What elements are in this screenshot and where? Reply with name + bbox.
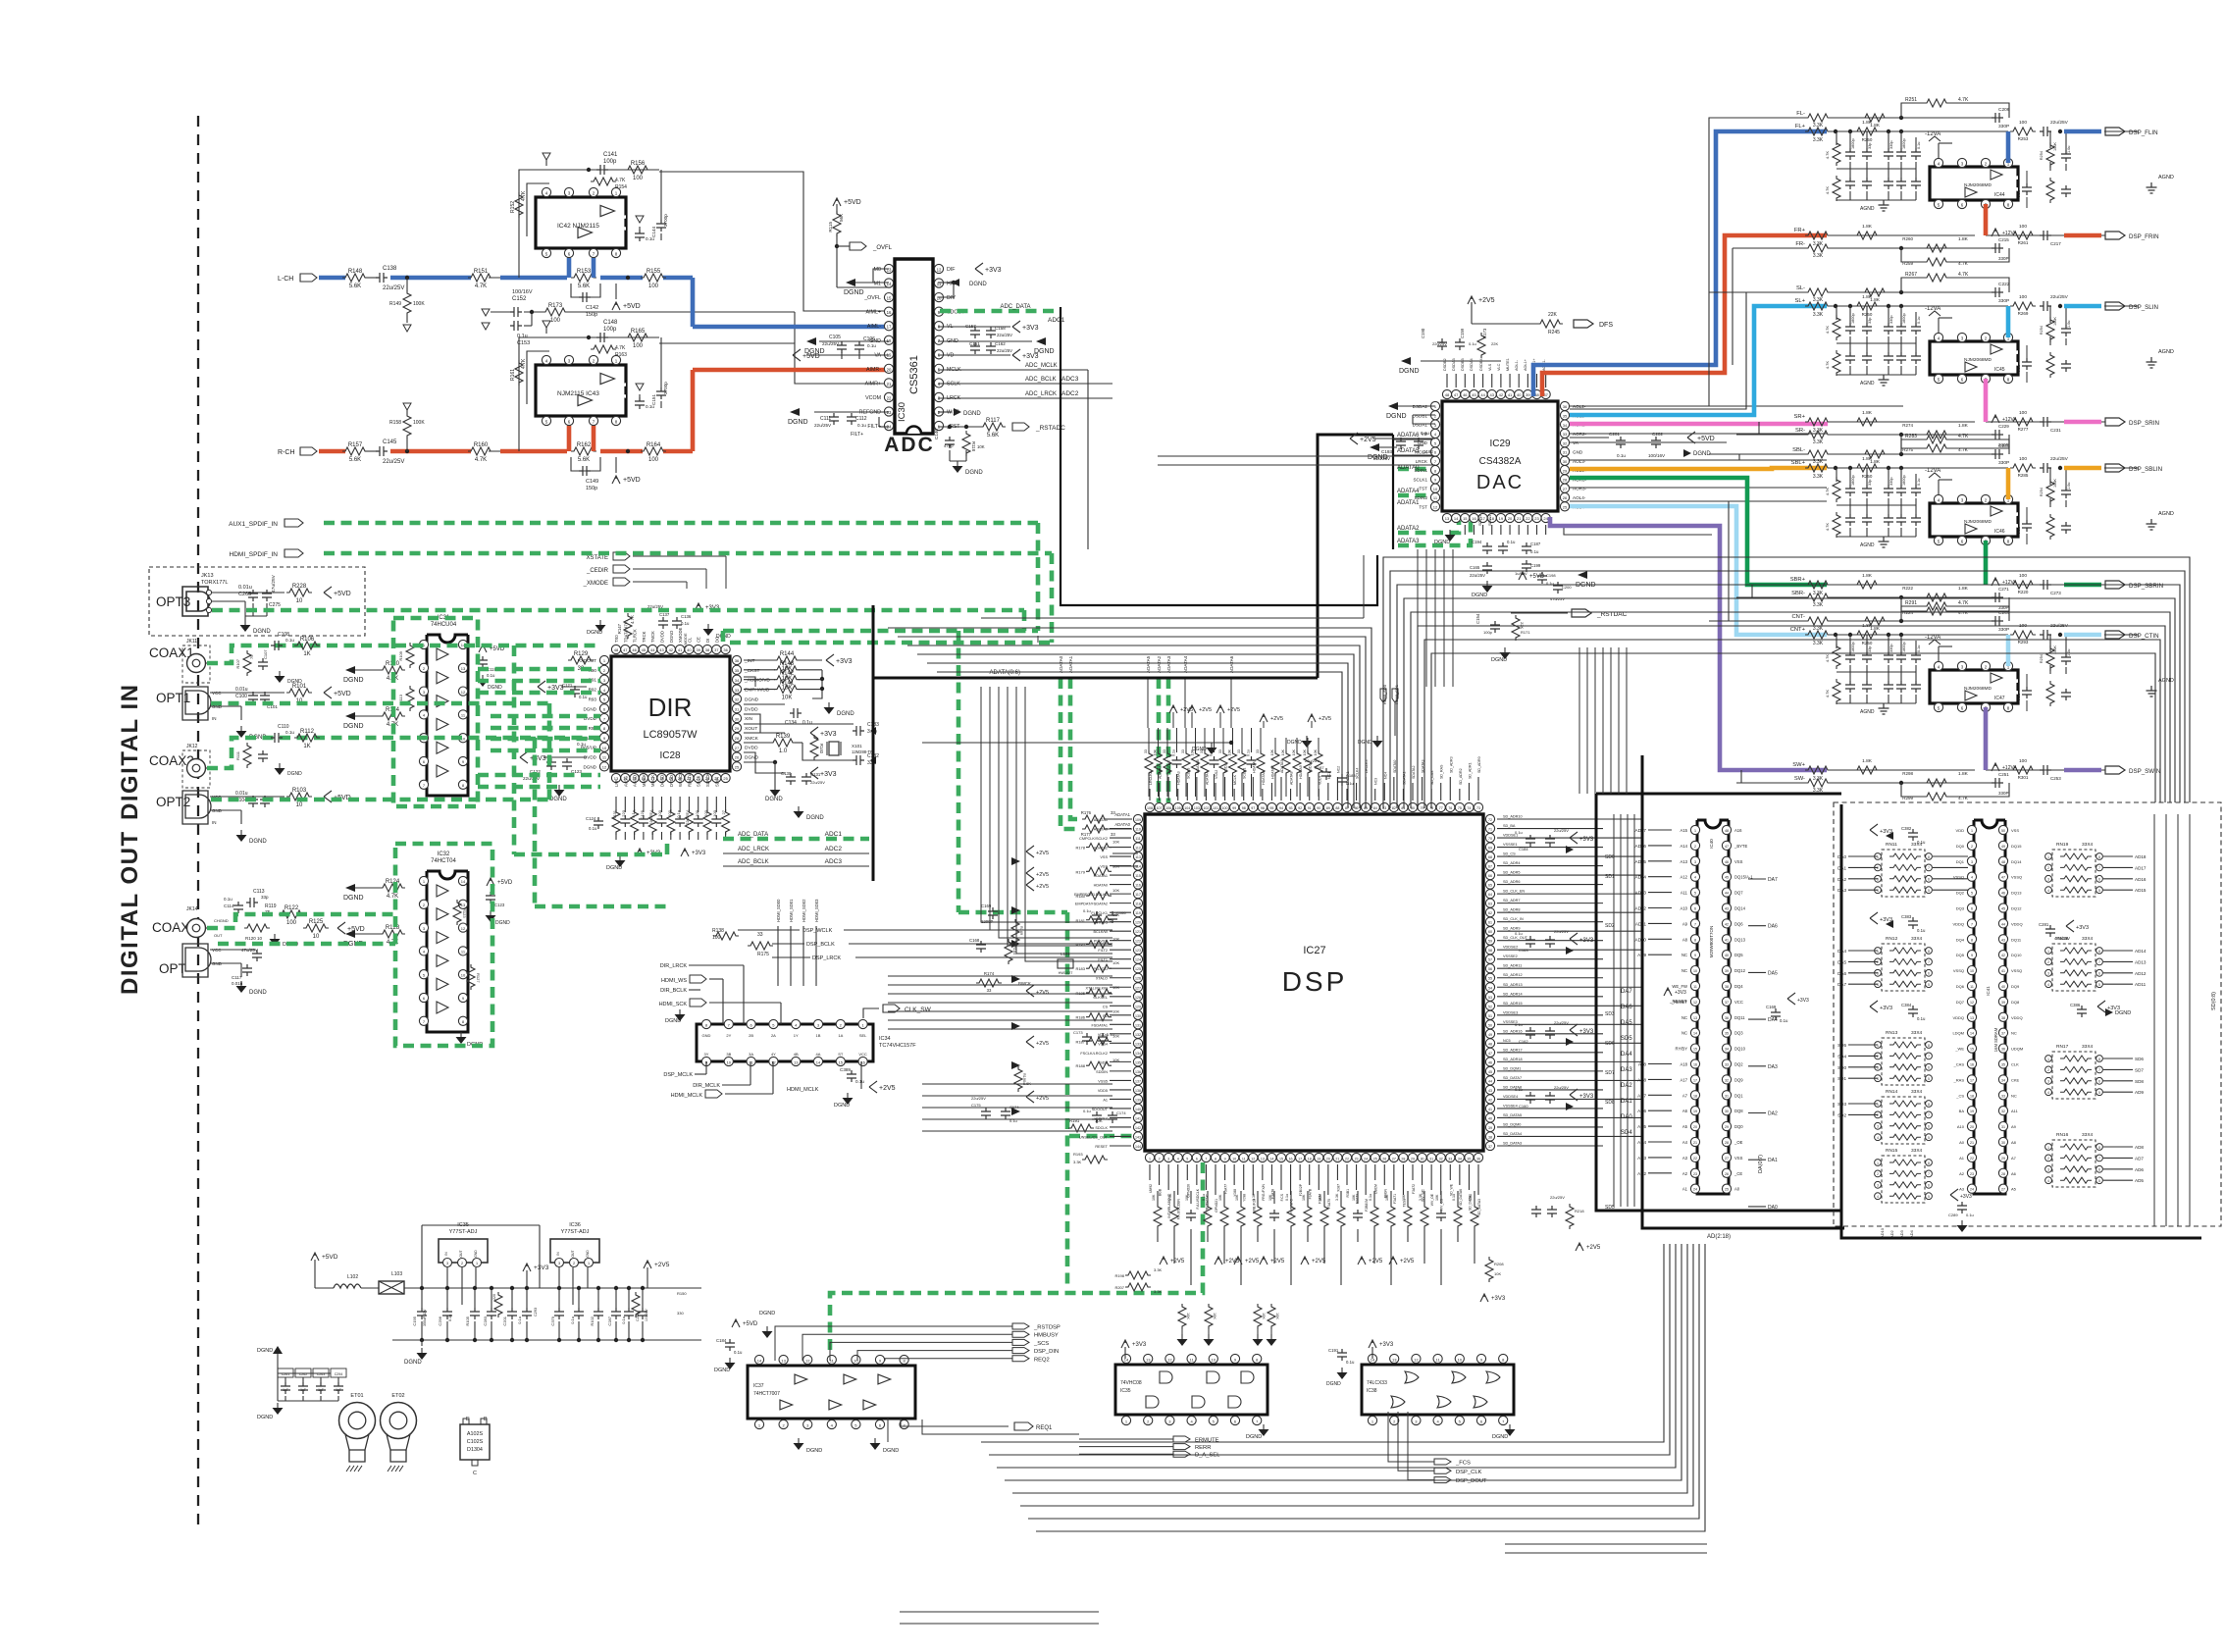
svg-text:33: 33: [1256, 749, 1260, 753]
svg-text:100/16V: 100/16V: [512, 289, 533, 295]
svg-text:43: 43: [1725, 907, 1729, 911]
svg-text:FILT+: FILT+: [851, 432, 863, 438]
svg-text:0.1u: 0.1u: [570, 1316, 575, 1324]
svg-text:33p: 33p: [1868, 646, 1872, 652]
svg-text:10: 10: [1693, 969, 1697, 973]
svg-text:JK12: JK12: [186, 744, 198, 749]
svg-text:0.1u: 0.1u: [1083, 908, 1091, 913]
svg-text:ADATA8: ADATA8: [1290, 772, 1294, 785]
svg-text:10K: 10K: [1494, 1271, 1501, 1276]
svg-text:+3V3: +3V3: [1491, 1296, 1506, 1302]
svg-text:137: 137: [1135, 1079, 1141, 1083]
svg-text:4.7K: 4.7K: [1958, 434, 1969, 439]
svg-text:22: 22: [1345, 1157, 1349, 1161]
svg-text:DA6: DA6: [1621, 1005, 1632, 1010]
svg-text:0.1u: 0.1u: [631, 810, 636, 818]
svg-text:138: 138: [1135, 1089, 1141, 1093]
svg-text:100: 100: [633, 343, 644, 349]
svg-text:33: 33: [1144, 749, 1148, 753]
svg-text:VSS5: VSS5: [1098, 1079, 1108, 1083]
svg-text:DSP: DSP: [1282, 966, 1348, 997]
svg-text:1: 1: [1877, 1162, 1879, 1165]
svg-text:3.3K: 3.3K: [1252, 1193, 1256, 1201]
svg-text:VSSSE2: VSSSE2: [1503, 955, 1518, 958]
svg-text:0.1u: 0.1u: [676, 810, 681, 818]
svg-text:135: 135: [1135, 1060, 1141, 1064]
svg-text:1: 1: [2047, 950, 2049, 954]
svg-text:46: 46: [632, 647, 637, 652]
svg-text:VSSSE4: VSSSE4: [1503, 1104, 1518, 1108]
svg-text:SD_ADR10: SD_ADR10: [1503, 815, 1523, 819]
svg-text:6: 6: [2098, 972, 2100, 976]
svg-text:47u/25V: 47u/25V: [271, 574, 277, 593]
svg-text:46: 46: [1463, 392, 1468, 397]
svg-text:R115: R115: [828, 222, 833, 232]
svg-text:R283: R283: [1905, 434, 1917, 439]
svg-text:16: 16: [887, 310, 892, 315]
svg-text:VSSQ: VSSQ: [1953, 968, 1964, 973]
svg-text:COAX: COAX: [152, 920, 189, 935]
svg-text:R183: R183: [1075, 966, 1085, 971]
svg-text:3.3K: 3.3K: [1335, 1193, 1339, 1201]
svg-text:DSP_FLIN: DSP_FLIN: [2129, 129, 2158, 136]
svg-text:SD0: SD0: [1605, 854, 1615, 860]
svg-text:5: 5: [1971, 892, 1973, 896]
svg-text:10: 10: [296, 802, 303, 808]
svg-text:40: 40: [2001, 985, 2005, 989]
svg-text:AGND: AGND: [2158, 175, 2174, 181]
svg-text:10K: 10K: [1228, 749, 1232, 755]
svg-text:DGND: DGND: [583, 706, 596, 711]
svg-text:33: 33: [1237, 749, 1241, 753]
svg-text:SR+: SR+: [1794, 414, 1806, 420]
svg-text:C202: C202: [1652, 432, 1663, 437]
svg-text:DIR_LRCK: DIR_LRCK: [660, 963, 688, 969]
svg-text:ADATA4: ADATA4: [1183, 655, 1188, 673]
svg-text:VCOM: VCOM: [865, 395, 881, 401]
svg-text:VSS: VSS: [1734, 1156, 1743, 1161]
svg-text:ADATA4: ADATA4: [1205, 772, 1209, 785]
svg-text:13: 13: [461, 903, 466, 907]
svg-text:26: 26: [1725, 1172, 1729, 1176]
svg-text:F3A71: F3A71: [1393, 1194, 1397, 1204]
svg-text:VDD: VDD: [1956, 828, 1965, 833]
svg-text:RN14: RN14: [1886, 1089, 1898, 1095]
svg-text:7: 7: [1928, 866, 1930, 870]
svg-text:100: 100: [667, 809, 672, 816]
svg-text:VDDQ: VDDQ: [1952, 1015, 1964, 1020]
svg-text:112: 112: [1135, 847, 1141, 851]
svg-text:39: 39: [696, 647, 700, 652]
svg-text:SD_ADR15: SD_ADR15: [1503, 1002, 1523, 1006]
svg-text:LC89057W: LC89057W: [643, 729, 698, 741]
svg-text:3.3K: 3.3K: [1154, 1267, 1163, 1272]
svg-text:DGND: DGND: [745, 697, 759, 702]
svg-text:C231: C231: [2050, 428, 2061, 433]
svg-text:10K: 10K: [1152, 1194, 1156, 1201]
svg-text:0.1u: 0.1u: [1107, 1032, 1114, 1037]
svg-text:48: 48: [614, 647, 619, 652]
svg-text:3: 3: [1971, 860, 1973, 864]
svg-text:SD_DATA3: SD_DATA3: [1503, 1142, 1522, 1146]
svg-text:0.1u: 0.1u: [285, 730, 294, 735]
svg-text:_CEDIR: _CEDIR: [586, 568, 609, 574]
svg-text:10K: 10K: [782, 696, 793, 701]
svg-text:8: 8: [1971, 938, 1973, 942]
svg-text:+3V3: +3V3: [820, 731, 837, 738]
svg-text:C386: C386: [2070, 1003, 2081, 1007]
svg-text:COAX1: COAX1: [149, 645, 194, 660]
svg-text:2: 2: [2047, 960, 2049, 964]
svg-text:IN: IN: [212, 820, 217, 825]
svg-text:31: 31: [1563, 450, 1568, 455]
svg-text:DQ2: DQ2: [1956, 891, 1965, 896]
svg-text:AD17: AD17: [2135, 865, 2147, 870]
svg-text:0.1u: 0.1u: [1515, 830, 1523, 835]
svg-text:100K: 100K: [2053, 142, 2057, 151]
svg-text:C379: C379: [550, 1316, 555, 1325]
svg-text:C142: C142: [586, 305, 598, 311]
svg-text:C389: C389: [840, 1067, 851, 1072]
svg-text:36: 36: [1725, 1016, 1729, 1020]
svg-text:47: 47: [1725, 845, 1729, 849]
svg-text:WE_FW: WE_FW: [1672, 984, 1687, 989]
svg-text:10: 10: [257, 936, 263, 941]
svg-text:C275: C275: [269, 602, 281, 608]
svg-text:22u/25V: 22u/25V: [383, 285, 404, 291]
svg-text:+3V3: +3V3: [1132, 1342, 1147, 1348]
svg-text:DA0: DA0: [1621, 1114, 1632, 1120]
svg-text:DSDB3: DSDB3: [1461, 358, 1465, 371]
svg-text:SD3: SD3: [1605, 1011, 1615, 1017]
svg-text:C201: C201: [502, 1316, 507, 1325]
svg-text:10: 10: [937, 296, 942, 301]
svg-text:+2V5: +2V5: [1036, 1041, 1049, 1047]
svg-text:37: 37: [1488, 1145, 1492, 1149]
svg-text:SD8: SD8: [2135, 1079, 2144, 1084]
svg-text:DQ1: DQ1: [1956, 859, 1965, 864]
svg-text:330P: 330P: [1998, 460, 2009, 466]
svg-text:AD3: AD3: [1899, 1229, 1904, 1238]
svg-text:45: 45: [1472, 392, 1476, 397]
svg-text:A5: A5: [2011, 1187, 2017, 1192]
svg-text:12: 12: [461, 690, 466, 695]
svg-text:80: 80: [1411, 806, 1415, 810]
svg-text:HDATA6: HDATA6: [1196, 759, 1200, 773]
svg-text:DSDB2: DSDB2: [1443, 358, 1447, 371]
svg-text:R301: R301: [2018, 775, 2029, 780]
svg-text:40: 40: [1517, 392, 1522, 397]
svg-text:C265: C265: [238, 592, 251, 597]
svg-text:1uF: 1uF: [283, 1388, 288, 1392]
svg-text:14: 14: [461, 879, 466, 884]
svg-text:0.1u: 0.1u: [1515, 1022, 1523, 1027]
svg-text:15: 15: [1463, 516, 1468, 521]
svg-text:14: 14: [1970, 1032, 1974, 1036]
svg-text:A10: A10: [1957, 1124, 1965, 1129]
svg-text:R254: R254: [2040, 488, 2044, 496]
svg-text:SCLK4: SCLK4: [1356, 768, 1360, 779]
svg-text:AIMR-: AIMR-: [866, 367, 881, 373]
svg-text:2: 2: [573, 1262, 575, 1265]
svg-text:11: 11: [1693, 985, 1697, 989]
svg-text:1.0u: 1.0u: [2067, 483, 2071, 490]
svg-text:15: 15: [1279, 1157, 1283, 1161]
svg-text:C253: C253: [2050, 776, 2061, 781]
svg-text:0.01u: 0.01u: [232, 981, 243, 986]
svg-text:+5VD: +5VD: [347, 926, 365, 933]
svg-text:AVSS: AVSS: [623, 776, 628, 787]
svg-text:33p: 33p: [1868, 318, 1872, 324]
svg-text:XOUT: XOUT: [745, 726, 757, 732]
svg-text:1800p: 1800p: [1902, 475, 1906, 486]
svg-text:14: 14: [816, 1059, 821, 1064]
svg-text:+2V5: +2V5: [1036, 884, 1049, 890]
svg-text:15: 15: [887, 296, 892, 301]
svg-text:R107: R107: [235, 658, 240, 668]
svg-text:IN: IN: [212, 716, 217, 721]
svg-text:31: 31: [1725, 1094, 1729, 1098]
svg-text:10K: 10K: [1213, 1313, 1216, 1319]
svg-text:DGND: DGND: [343, 723, 364, 730]
svg-text:+3V3: +3V3: [1579, 1094, 1594, 1100]
svg-text:MMCK: MMCK: [642, 774, 647, 787]
svg-text:39: 39: [1488, 1126, 1492, 1130]
svg-text:TST: TST: [1419, 487, 1427, 491]
svg-text:XSTATE: XSTATE: [587, 555, 608, 561]
svg-text:4: 4: [2047, 1179, 2049, 1183]
svg-text:DGND: DGND: [587, 630, 602, 636]
svg-text:A11: A11: [2011, 1109, 2019, 1113]
svg-text:50: 50: [2001, 829, 2005, 833]
svg-text:R93: R93: [589, 697, 597, 701]
svg-text:R162: R162: [577, 442, 592, 448]
svg-text:C137: C137: [659, 612, 670, 617]
svg-text:IC44: IC44: [1994, 192, 2005, 198]
svg-text:13: 13: [1261, 1157, 1265, 1161]
svg-text:0.1u: 0.1u: [1917, 645, 1921, 652]
svg-text:13: 13: [1693, 1016, 1697, 1020]
svg-text:SR-: SR-: [1795, 428, 1805, 434]
svg-text:4.7K: 4.7K: [1825, 186, 1830, 195]
svg-text:VSSSE1: VSSSE1: [1503, 843, 1518, 847]
svg-text:SD1: SD1: [1837, 1076, 1846, 1081]
svg-text:DGND: DGND: [404, 1360, 422, 1366]
svg-text:JK14: JK14: [186, 906, 198, 912]
svg-text:A3: A3: [1959, 1187, 1965, 1192]
svg-text:A5: A5: [1682, 1124, 1688, 1129]
svg-text:FSDATA1: FSDATA1: [1091, 1023, 1108, 1027]
svg-text:DGND: DGND: [1368, 454, 1388, 461]
svg-text:AD8: AD8: [2135, 1145, 2144, 1150]
svg-text:330: 330: [677, 1311, 684, 1316]
svg-text:LRCLKB: LRCLKB: [1149, 770, 1153, 785]
svg-text:FWTINFG: FWTINFG: [1290, 1199, 1294, 1214]
svg-text:R129: R129: [574, 651, 589, 657]
svg-text:140: 140: [1135, 1108, 1141, 1111]
svg-text:74HCT7007: 74HCT7007: [753, 1391, 780, 1397]
svg-text:AD11: AD11: [2135, 982, 2147, 987]
svg-text:4.7K: 4.7K: [630, 615, 635, 624]
svg-text:32: 32: [735, 697, 740, 702]
svg-text:33: 33: [1111, 832, 1115, 837]
svg-text:A15: A15: [1681, 828, 1688, 833]
svg-text:330p: 330p: [1889, 316, 1893, 324]
svg-text:7: 7: [2098, 866, 2100, 870]
svg-text:SD_ADR13: SD_ADR13: [1503, 983, 1523, 987]
svg-text:A2: A2: [1959, 1171, 1965, 1176]
svg-text:1800p: 1800p: [1851, 475, 1855, 486]
svg-text:33X4: 33X4: [2082, 936, 2094, 942]
svg-text:SD0: SD0: [1837, 1065, 1846, 1070]
svg-text:C198: C198: [1546, 573, 1556, 578]
svg-text:C149: C149: [586, 479, 598, 485]
svg-text:0.1u: 0.1u: [1917, 142, 1921, 149]
svg-text:134: 134: [1135, 1052, 1141, 1056]
svg-text:SD6: SD6: [2135, 1057, 2144, 1061]
svg-text:12: 12: [1970, 1001, 1974, 1005]
svg-text:C151: C151: [969, 341, 980, 346]
svg-text:33X4: 33X4: [1911, 842, 1923, 848]
svg-text:43: 43: [1488, 1089, 1492, 1093]
svg-text:6: 6: [1928, 1125, 1930, 1129]
svg-text:X087: X087: [1336, 1184, 1340, 1192]
svg-text:1800p: 1800p: [1902, 138, 1906, 149]
svg-text:+2V5: +2V5: [1170, 1259, 1185, 1265]
svg-text:121: 121: [1135, 930, 1141, 934]
svg-text:SDIN: SDIN: [714, 777, 719, 787]
svg-text:10K: 10K: [1218, 1194, 1222, 1201]
svg-text:41: 41: [1725, 938, 1729, 942]
svg-text:DA0: DA0: [1837, 854, 1846, 859]
svg-text:AD13: AD13: [2135, 959, 2147, 964]
svg-text:WLRCK: WLRCK: [678, 772, 683, 787]
svg-text:21: 21: [1693, 1141, 1697, 1145]
svg-text:DA4: DA4: [1621, 1052, 1632, 1058]
svg-text:DQ11: DQ11: [1734, 1015, 1745, 1020]
svg-text:6: 6: [1196, 1157, 1198, 1161]
svg-text:DSDB4: DSDB4: [1479, 358, 1483, 371]
svg-text:+3V3: +3V3: [1579, 938, 1594, 944]
svg-text:DIGITAL IN: DIGITAL IN: [117, 684, 143, 820]
svg-text:_OVFL: _OVFL: [863, 295, 881, 301]
svg-text:TST: TST: [1419, 504, 1427, 509]
svg-text:17: 17: [1693, 1078, 1697, 1082]
svg-text:46: 46: [2001, 892, 2005, 896]
svg-text:14: 14: [1454, 516, 1459, 521]
svg-text:8: 8: [2098, 855, 2100, 859]
svg-text:3.3K: 3.3K: [1073, 1160, 1082, 1164]
svg-text:26: 26: [1382, 1157, 1386, 1161]
svg-text:XTALI/CLKIN: XTALI/CLKIN: [1085, 986, 1108, 990]
svg-text:SD_RAS: SD_RAS: [1440, 764, 1444, 779]
svg-text:MBCK: MBCK: [650, 775, 655, 787]
svg-text:2: 2: [1971, 845, 1973, 849]
svg-text:3.3K: 3.3K: [1813, 253, 1824, 259]
svg-text:DGND: DGND: [1472, 593, 1487, 598]
svg-text:C184: C184: [1519, 847, 1528, 852]
svg-text:143: 143: [1135, 1135, 1141, 1139]
svg-text:74LCX33: 74LCX33: [1367, 1380, 1387, 1386]
svg-text:33X4: 33X4: [2082, 842, 2094, 848]
svg-text:+2V5: +2V5: [1036, 990, 1049, 996]
svg-text:R147: R147: [617, 623, 622, 634]
svg-text:33: 33: [1563, 432, 1568, 437]
svg-text:46: 46: [1725, 860, 1729, 864]
svg-text:+5VD: +5VD: [802, 353, 820, 360]
svg-text:A6: A6: [1682, 1109, 1688, 1113]
svg-text:0.1u: 0.1u: [681, 621, 690, 626]
svg-text:C187: C187: [1530, 542, 1541, 546]
svg-text:8: 8: [1928, 1044, 1930, 1048]
svg-text:100: 100: [2019, 120, 2027, 126]
svg-text:1: 1: [476, 1262, 478, 1265]
svg-text:1.8K: 1.8K: [1958, 423, 1969, 429]
svg-text:350uF/13V: 350uF/13V: [423, 1309, 427, 1326]
svg-text:EMPHA/UD: EMPHA/UD: [745, 688, 770, 694]
svg-text:DGND: DGND: [837, 711, 854, 717]
svg-text:30: 30: [735, 716, 740, 721]
svg-text:0.1u: 0.1u: [2017, 527, 2021, 534]
svg-text:70: 70: [1488, 837, 1492, 841]
svg-text:330P: 330P: [1998, 256, 2009, 261]
svg-text:4.7K: 4.7K: [1825, 488, 1830, 496]
svg-text:C187: C187: [1315, 765, 1324, 770]
svg-text:R141: R141: [780, 681, 795, 687]
svg-text:FSCLK/LRCLK2: FSCLK/LRCLK2: [1080, 1052, 1108, 1056]
svg-text:ADC_MCLK: ADC_MCLK: [1025, 363, 1058, 369]
svg-text:R187: R187: [1075, 1039, 1085, 1044]
svg-text:19: 19: [1693, 1110, 1697, 1113]
svg-text:SLRCK: SLRCK: [705, 773, 710, 787]
svg-text:C200: C200: [1562, 585, 1572, 590]
svg-text:+5VD: +5VD: [623, 477, 641, 484]
svg-text:A9: A9: [1682, 921, 1688, 926]
svg-text:51: 51: [1488, 1014, 1492, 1018]
svg-text:SD_CLK_EN: SD_CLK_EN: [1503, 890, 1525, 894]
svg-text:1: 1: [1149, 1157, 1151, 1161]
svg-text:DGND: DGND: [583, 764, 596, 769]
svg-text:10K: 10K: [1112, 1009, 1119, 1014]
svg-text:10K: 10K: [1268, 1194, 1272, 1201]
svg-text:DQ6: DQ6: [1734, 921, 1743, 926]
svg-text:1.8K: 1.8K: [1958, 236, 1969, 242]
svg-text:DGND: DGND: [788, 419, 808, 426]
svg-text:R-CH: R-CH: [278, 449, 295, 456]
svg-text:+5VD: +5VD: [743, 1321, 758, 1327]
svg-text:CLK: CLK: [2011, 1062, 2019, 1067]
svg-text:C117: C117: [232, 975, 242, 980]
svg-text:C169: C169: [1766, 1005, 1777, 1009]
svg-text:HDMI_SD02: HDMI_SD02: [802, 899, 806, 922]
svg-text:65: 65: [1488, 884, 1492, 888]
svg-text:VDD1: VDD1: [1309, 763, 1313, 773]
svg-text:R174: R174: [984, 971, 995, 976]
svg-text:27: 27: [1725, 1157, 1729, 1161]
svg-text:8: 8: [1928, 950, 1930, 954]
svg-text:4: 4: [1877, 1136, 1879, 1140]
svg-text:+3V3: +3V3: [836, 658, 853, 665]
svg-text:SDATA0: SDATA0: [1393, 760, 1397, 773]
svg-text:4: 4: [1877, 983, 1879, 987]
svg-text:DSP_SBRIN: DSP_SBRIN: [2129, 583, 2163, 590]
svg-text:100K: 100K: [2053, 479, 2057, 488]
svg-text:NC3: NC3: [1374, 778, 1378, 785]
svg-text:1.8K: 1.8K: [1862, 456, 1873, 462]
svg-text:SCLK1: SCLK1: [1243, 768, 1247, 779]
svg-text:R228: R228: [292, 584, 307, 590]
svg-text:67: 67: [1488, 865, 1492, 869]
